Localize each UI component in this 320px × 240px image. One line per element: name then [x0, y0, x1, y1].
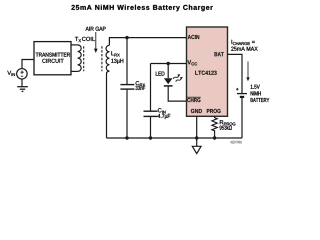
wire VIN to transmitter box [22, 60, 34, 69]
capacitor CIN [150, 64, 152, 112]
wire BAT to battery [228, 54, 243, 93]
wire box to TX coil (top) [71, 44, 78, 46]
pin label GND [191, 109, 202, 113]
figure number [230, 141, 241, 144]
node CIN/rail [149, 136, 152, 139]
node CRX/rail [125, 136, 128, 139]
LED light arrows [172, 73, 181, 80]
pin label CHRG [187, 98, 200, 102]
LED [167, 64, 169, 79]
pin label BAT [215, 52, 224, 56]
label AIR GAP [86, 27, 106, 31]
air gap arrow [95, 32, 97, 50]
node GND/rail [195, 136, 198, 139]
resistor RPROG [212, 116, 217, 138]
pin label VCC [187, 60, 197, 65]
charge current arrow [247, 62, 249, 79]
battery plus sign [236, 88, 239, 91]
wire GND pin to rail [196, 116, 198, 138]
label TX COIL [75, 37, 95, 42]
label CIN 4.7uF [158, 108, 166, 113]
wire RX coil bottom to rail [106, 73, 108, 138]
node CRX/ACIN [125, 36, 128, 39]
core TX (dashed) [83, 46, 85, 71]
wire box to TX coil (bottom) [71, 70, 78, 72]
label LED [156, 72, 165, 76]
inductor LRX (receiver coil) [106, 45, 109, 73]
transformer primary TX coil [78, 45, 82, 71]
label VIN [7, 71, 15, 76]
IC U1 LTC4123 [187, 27, 228, 116]
node LED/VCC [167, 62, 170, 65]
core RX (dashed) [101, 46, 103, 71]
transmitter circuit block [34, 42, 71, 75]
wire VCC rail [151, 63, 187, 65]
label LRX 13uH [111, 51, 119, 56]
pin label PROG [207, 109, 221, 113]
ground (main) [196, 138, 198, 146]
pin label ACIN [188, 35, 199, 39]
chip name LTC4123 [195, 71, 216, 75]
ground rail [107, 137, 243, 139]
label RPROG 953k [220, 120, 235, 125]
wire VIN to ground [21, 79, 23, 87]
node RPROG/rail [213, 136, 216, 139]
label CRX 33nF [136, 81, 146, 86]
wire RX coil top to ACIN [109, 38, 186, 46]
title [71, 5, 212, 12]
wire battery to rail [241, 97, 243, 138]
capacitor CRX [126, 38, 128, 85]
ground (VIN) [17, 87, 28, 92]
label ICHARGE [232, 40, 255, 45]
voltage source VIN [17, 69, 28, 80]
battery BT1 [237, 93, 247, 95]
label battery [251, 85, 260, 89]
